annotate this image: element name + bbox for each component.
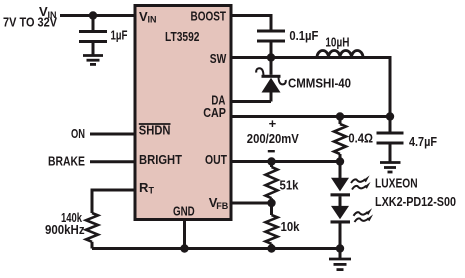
- svg-text:BOOST: BOOST: [191, 9, 227, 24]
- svg-text:FB: FB: [216, 201, 228, 211]
- IC U1 LT3592 body and pin labels: [135, 6, 231, 220]
- svg-text:10µH: 10µH: [325, 35, 349, 50]
- wire VIN input to IC: [60, 14, 135, 17]
- svg-text:GND: GND: [173, 204, 195, 219]
- LED D3: [331, 196, 351, 248]
- wire RT pin to resistor: [92, 190, 135, 213]
- capacitor C3 4.7uF: [377, 117, 438, 163]
- svg-text:LT3592: LT3592: [165, 29, 200, 44]
- wire GND pin to bus: [183, 219, 186, 249]
- svg-text:BRIGHT: BRIGHT: [139, 152, 182, 167]
- node junction 10k/bus: [267, 244, 275, 252]
- resistor R1 140k: [45, 210, 98, 249]
- capacitor C2 0.1uF: [257, 28, 318, 58]
- svg-text:OUT: OUT: [205, 152, 227, 167]
- svg-text:LUXEON: LUXEON: [375, 176, 418, 191]
- node sense labels + 200/20mV -: [247, 116, 299, 152]
- svg-text:ON: ON: [71, 126, 85, 141]
- node junction CAP/C3: [386, 112, 394, 120]
- wire OUT net: [231, 160, 340, 163]
- resistor R2 0.4ohm: [334, 117, 373, 162]
- svg-text:IN: IN: [148, 15, 157, 25]
- ground (LED): [329, 249, 351, 270]
- wire SW net: [231, 56, 390, 59]
- LED light rays D2: [351, 175, 371, 189]
- svg-text:BRAKE: BRAKE: [48, 154, 85, 169]
- node junction OUT/R3: [267, 157, 275, 165]
- wire SW down to CAP net: [389, 56, 392, 117]
- LED light rays D3: [354, 208, 374, 222]
- svg-text:0.4Ω: 0.4Ω: [348, 131, 373, 146]
- svg-text:+: +: [269, 116, 277, 131]
- node LED labels: [375, 176, 456, 210]
- svg-text:0.1µF: 0.1µF: [289, 28, 318, 43]
- ground (C3): [380, 163, 401, 173]
- wire BRAKE to BRIGHT pin: [90, 160, 135, 163]
- svg-text:4.7µF: 4.7µF: [409, 134, 437, 149]
- node junction VFB: [267, 199, 275, 207]
- resistor R3 51k: [266, 162, 300, 204]
- resistor R4 10k: [266, 203, 301, 249]
- node VIN input label: [3, 4, 57, 30]
- wire DA pin: [233, 100, 272, 103]
- wire VFB pin: [231, 202, 272, 205]
- wire ground bus: [92, 247, 340, 250]
- node junction LED/bus: [336, 244, 344, 252]
- wire CAP net: [231, 115, 390, 118]
- svg-text:LXK2-PD12-S00: LXK2-PD12-S00: [375, 194, 456, 209]
- capacitor C1 1uF: [79, 16, 128, 56]
- svg-text:51k: 51k: [280, 178, 300, 193]
- svg-text:200/20mV: 200/20mV: [247, 131, 299, 146]
- wire BOOST to C2: [231, 16, 271, 32]
- node junction GND: [180, 244, 188, 252]
- svg-text:10k: 10k: [281, 219, 301, 234]
- svg-text:SW: SW: [210, 51, 227, 66]
- svg-text:7V TO 32V: 7V TO 32V: [3, 15, 57, 30]
- svg-text:T: T: [149, 186, 155, 196]
- node junction OUT/LED: [336, 157, 344, 165]
- node junction SW/D1: [267, 53, 275, 61]
- diode D1 CMMSHI-40 schottky: [256, 58, 351, 102]
- svg-text:CAP: CAP: [203, 105, 226, 120]
- ground (C1): [83, 56, 103, 65]
- LED D2: [331, 162, 351, 197]
- svg-text:CMMSHI-40: CMMSHI-40: [288, 76, 351, 91]
- node junction CAP/R2: [336, 112, 344, 120]
- svg-text:R: R: [139, 180, 149, 195]
- inductor L1 10uH: [317, 35, 363, 58]
- svg-text:1µF: 1µF: [111, 28, 128, 43]
- node junction VIN/C1: [89, 11, 97, 19]
- svg-text:900kHz: 900kHz: [45, 222, 85, 237]
- wire ON to SHDN pin: [90, 133, 135, 136]
